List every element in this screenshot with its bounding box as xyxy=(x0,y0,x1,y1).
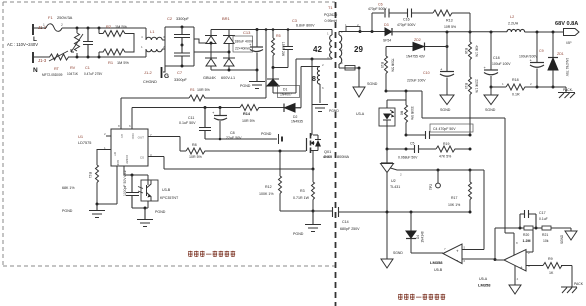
svg-text:SGND: SGND xyxy=(485,108,496,112)
transformer T1 primary winding 42T xyxy=(313,30,332,61)
svg-text:1: 1 xyxy=(43,23,45,27)
svg-text:R9: R9 xyxy=(548,257,553,261)
resistor R21 xyxy=(542,226,551,243)
wire gate line xyxy=(206,150,306,152)
resistor R14 xyxy=(240,105,260,124)
ground PGND opto xyxy=(137,208,166,227)
capacitor C8 xyxy=(212,106,242,140)
ground U5-A xyxy=(509,285,521,294)
svg-text:T1: T1 xyxy=(328,6,332,10)
resistor R19 xyxy=(436,142,472,159)
resistor R10 xyxy=(464,77,479,135)
ground SGND TL431 xyxy=(381,212,403,268)
optocoupler U3-A xyxy=(356,91,406,149)
svg-text:68K 1%: 68K 1% xyxy=(62,186,75,190)
svg-text:LM358: LM358 xyxy=(478,283,491,288)
optocoupler U3-B xyxy=(138,175,179,208)
resistor R15 xyxy=(380,47,395,92)
wire ref line extension xyxy=(462,170,484,250)
svg-text:R3: R3 xyxy=(300,189,305,193)
svg-text:42: 42 xyxy=(313,45,322,54)
svg-text:1M 5%: 1M 5% xyxy=(117,61,129,65)
resistor R13 xyxy=(433,10,470,32)
svg-text:1000pF 50V C12: 1000pF 50V C12 xyxy=(123,170,127,196)
wire output line after D3 xyxy=(392,31,507,33)
diode D1 xyxy=(267,68,300,98)
wire U1 COMP pin xyxy=(124,166,148,175)
svg-text:PGND: PGND xyxy=(240,84,251,88)
node R15 bottom xyxy=(385,90,388,93)
terminal PACK+ xyxy=(561,266,584,294)
svg-text:800MA: 800MA xyxy=(337,155,349,159)
svg-text:SGND: SGND xyxy=(367,82,378,86)
svg-text:470pF 500V: 470pF 500V xyxy=(368,7,387,11)
svg-text:R18: R18 xyxy=(512,78,519,82)
svg-text:C14: C14 xyxy=(342,220,349,224)
svg-text:R5: R5 xyxy=(276,34,281,38)
wire HV startup rail xyxy=(206,97,266,99)
resistor R3 xyxy=(293,169,315,211)
svg-text:C6: C6 xyxy=(378,3,383,7)
node L-C1 xyxy=(87,27,90,30)
wire U5-A pin3 xyxy=(526,265,543,267)
svg-text:PGND: PGND xyxy=(329,109,339,113)
wire U5-A pin4 ground xyxy=(514,266,516,286)
resistor R18 shunt xyxy=(491,78,532,97)
zener ZD2 xyxy=(386,32,449,71)
label secondary side chinese xyxy=(398,294,445,300)
transformer T1 labels xyxy=(324,6,337,23)
ferrite bead top xyxy=(339,23,362,33)
svg-text:PQ2620: PQ2620 xyxy=(324,13,337,17)
svg-text:220K 1%: 220K 1% xyxy=(475,79,479,92)
node L-R2 xyxy=(98,27,101,30)
svg-text:10R 5%: 10R 5% xyxy=(242,119,256,123)
capacitor C7 xyxy=(174,44,190,83)
svg-text:0.71R 1W: 0.71R 1W xyxy=(293,196,310,200)
connector J1-1 xyxy=(33,24,47,43)
svg-text:R15: R15 xyxy=(380,62,384,68)
svg-text:MF72-05D009: MF72-05D009 xyxy=(42,73,63,77)
svg-text:C5: C5 xyxy=(410,142,414,146)
svg-text:F1: F1 xyxy=(48,15,53,20)
svg-text:1N4755 43V: 1N4755 43V xyxy=(406,55,426,59)
svg-text:+: + xyxy=(520,265,523,270)
svg-text:U5-A: U5-A xyxy=(479,277,488,281)
thermistor RT xyxy=(42,51,70,77)
svg-text:680pF 250V: 680pF 250V xyxy=(340,227,360,231)
thick dashed isolation line xyxy=(335,2,337,306)
svg-text:R17: R17 xyxy=(451,196,457,200)
wire R1-R2 join xyxy=(127,34,134,53)
wire C12/opto return xyxy=(132,207,148,209)
svg-text:CS: CS xyxy=(140,156,144,160)
IC U1 LD7575 xyxy=(78,124,152,168)
MOSFET Q01 xyxy=(307,129,350,169)
wire U1 pin1 RT xyxy=(97,150,111,166)
svg-text:1.2M: 1.2M xyxy=(523,239,531,243)
svg-text:1N4935: 1N4935 xyxy=(291,120,303,124)
svg-text:C9: C9 xyxy=(539,49,544,53)
svg-text:0.1R: 0.1R xyxy=(512,93,520,97)
svg-text:330R 5%: 330R 5% xyxy=(410,106,414,120)
svg-text:8: 8 xyxy=(312,76,316,83)
capacitor C6 xyxy=(368,3,407,18)
svg-text:PGND: PGND xyxy=(261,132,272,136)
op-amp U5-A xyxy=(478,228,530,288)
wire U5-B plus input xyxy=(462,249,484,251)
wire U1 pin2 stub xyxy=(106,135,111,137)
svg-text:N: N xyxy=(33,67,38,74)
svg-text:C2: C2 xyxy=(167,16,173,21)
svg-text:C17: C17 xyxy=(539,211,546,215)
resistor R20 xyxy=(523,226,534,243)
ground PGND C13 xyxy=(240,70,265,89)
svg-text:U3-B: U3-B xyxy=(162,188,171,192)
capacitor C10 xyxy=(407,67,454,96)
svg-text:750R 5%: 750R 5% xyxy=(391,58,395,72)
ground PGND R11 xyxy=(62,204,105,218)
svg-text:R1: R1 xyxy=(108,60,114,65)
svg-text:CHGND: CHGND xyxy=(143,80,157,84)
wire HV to clamp return xyxy=(265,28,268,98)
svg-text:0.95mH: 0.95mH xyxy=(325,19,338,23)
svg-text:1N4148: 1N4148 xyxy=(421,231,425,242)
svg-text:R11: R11 xyxy=(88,172,92,178)
power tap PGND cell 2 xyxy=(261,132,282,144)
svg-text:RT: RT xyxy=(54,67,60,71)
diode D3 xyxy=(383,23,392,43)
svg-text:22×40mm: 22×40mm xyxy=(235,47,250,51)
resistor R2 xyxy=(99,24,127,37)
svg-text:29: 29 xyxy=(354,45,363,54)
connector J1-3 xyxy=(33,52,48,74)
svg-text:R8: R8 xyxy=(192,143,197,147)
svg-text:R12: R12 xyxy=(265,185,272,189)
op-amp U5-B xyxy=(430,244,466,272)
svg-text:43K 1%: 43K 1% xyxy=(475,45,479,57)
ground SGND C10 xyxy=(440,95,454,112)
wire shunt to PACK- xyxy=(526,87,566,92)
svg-text:TL431: TL431 xyxy=(390,185,400,189)
svg-text:KPC357NT: KPC357NT xyxy=(160,196,179,200)
resistor R4 startup xyxy=(189,88,211,101)
svg-text:OUT: OUT xyxy=(138,136,145,140)
ground SGND C18 xyxy=(484,87,498,112)
node source xyxy=(312,168,315,171)
diode D4 xyxy=(406,212,443,253)
svg-text:2: 2 xyxy=(61,23,63,27)
svg-text:C1: C1 xyxy=(85,66,90,70)
svg-text:R2: R2 xyxy=(106,24,112,29)
wire AC2 to bridge xyxy=(194,51,229,53)
node N-RV xyxy=(76,56,79,59)
capacitor C18 xyxy=(484,32,512,89)
svg-text:PGND: PGND xyxy=(62,209,73,213)
resistor R6 xyxy=(400,100,415,135)
node pin2 junction xyxy=(533,227,542,229)
ground SGND R21 xyxy=(551,228,577,244)
wire R14 to D2 xyxy=(260,107,284,109)
resistor R1 xyxy=(99,49,129,65)
ferrite bead bottom xyxy=(339,66,361,71)
capacitor C16 xyxy=(397,9,433,28)
svg-text:J1-2: J1-2 xyxy=(144,70,153,75)
svg-text:3300pF: 3300pF xyxy=(174,78,188,82)
wire bridge negative rail xyxy=(211,69,257,71)
svg-text:R6: R6 xyxy=(400,111,404,115)
node N-C1 xyxy=(87,56,90,59)
resistor R8 xyxy=(186,143,206,159)
svg-text:U5-B: U5-B xyxy=(434,268,443,272)
svg-text:U1: U1 xyxy=(78,134,84,139)
capacitor C3 xyxy=(272,19,316,69)
svg-text:68P: 68P xyxy=(566,41,572,45)
capacitor C4 xyxy=(405,124,474,139)
wire PGND line xyxy=(280,210,332,212)
svg-text:SGND: SGND xyxy=(393,251,403,255)
svg-text:0.47uF 275V: 0.47uF 275V xyxy=(84,72,103,76)
svg-text:6.8nF 800V: 6.8nF 800V xyxy=(296,24,315,28)
diode D2 xyxy=(284,104,303,124)
svg-text:C13: C13 xyxy=(243,30,251,35)
svg-text:SGND: SGND xyxy=(560,234,564,244)
svg-text:C16: C16 xyxy=(403,18,410,22)
ground PGND aux xyxy=(312,105,339,114)
svg-text:100uF/100V: 100uF/100V xyxy=(519,55,538,59)
capacitor C14 xyxy=(313,207,387,231)
svg-text:R10: R10 xyxy=(464,83,468,89)
svg-text:4N60: 4N60 xyxy=(323,155,332,159)
resistor R17 xyxy=(448,169,472,213)
svg-text:R13: R13 xyxy=(446,19,453,23)
capacitor C17 xyxy=(520,210,548,228)
wire U1 pin8 HV riser xyxy=(121,98,189,129)
svg-text:TP2: TP2 xyxy=(429,184,433,190)
svg-text:RT: RT xyxy=(113,152,117,156)
svg-text:C7: C7 xyxy=(177,70,183,75)
svg-text:BR1: BR1 xyxy=(222,16,231,21)
svg-text:PACK-: PACK- xyxy=(563,88,573,92)
svg-text:1N4761 75V: 1N4761 75V xyxy=(565,58,569,77)
svg-text:R1: R1 xyxy=(190,88,195,92)
svg-text:PGND: PGND xyxy=(155,210,166,214)
svg-text:47K 5%: 47K 5% xyxy=(439,155,451,159)
capacitor C12 xyxy=(123,170,139,208)
resistor R16 xyxy=(464,32,479,77)
svg-text:1K: 1K xyxy=(549,271,554,275)
svg-text:R20: R20 xyxy=(523,233,529,237)
wire drain xyxy=(311,59,313,129)
svg-text:R14: R14 xyxy=(243,112,251,116)
capacitor C1 xyxy=(83,28,103,76)
test point TP2 xyxy=(429,169,440,191)
capacitor C5 xyxy=(398,142,436,160)
svg-text:D3: D3 xyxy=(384,23,389,27)
svg-text:0.1uF 50V: 0.1uF 50V xyxy=(179,121,196,125)
wire SGND line xyxy=(387,211,470,213)
svg-text:ZD2: ZD2 xyxy=(414,38,421,42)
svg-text:68V 0.8A: 68V 0.8A xyxy=(555,21,578,27)
svg-text:AC : 110V~240V: AC : 110V~240V xyxy=(7,42,38,47)
svg-text:D1: D1 xyxy=(283,88,287,92)
wire U1 pin6 VCC riser xyxy=(132,108,240,130)
svg-text:D4: D4 xyxy=(416,235,420,239)
svg-text:10K 1%: 10K 1% xyxy=(448,203,460,207)
svg-text:RV: RV xyxy=(70,66,76,70)
svg-text:ZD1: ZD1 xyxy=(557,52,564,56)
svg-text:C18: C18 xyxy=(493,56,500,60)
svg-text:LD7575: LD7575 xyxy=(78,141,91,145)
svg-text:PGND: PGND xyxy=(293,232,304,236)
svg-text:R16: R16 xyxy=(464,48,468,54)
svg-text:C8: C8 xyxy=(230,131,235,135)
wire VCC decoupling return xyxy=(205,138,277,140)
wire U5-B minus input xyxy=(462,258,495,260)
node L-RV xyxy=(76,27,79,30)
transformer T1 secondary winding 29T xyxy=(339,30,363,68)
svg-text:LM358: LM358 xyxy=(430,260,443,265)
svg-text:SGND: SGND xyxy=(440,108,451,112)
svg-text:J1-3: J1-3 xyxy=(38,58,47,63)
ground PGND R3 xyxy=(293,211,321,236)
wire U5-A pin2 feedback xyxy=(526,228,533,252)
resistor R5 xyxy=(272,28,286,67)
connector J1-2 G xyxy=(143,66,169,84)
svg-text:220uF 100V: 220uF 100V xyxy=(407,79,426,83)
resistor R11 xyxy=(62,165,99,204)
svg-text:0.068uF 50V: 0.068uF 50V xyxy=(398,156,418,160)
svg-text:+: + xyxy=(456,249,459,254)
choke L1 xyxy=(141,28,165,57)
svg-text:100K 1%: 100K 1% xyxy=(259,192,274,196)
svg-text:0.1uF: 0.1uF xyxy=(539,217,548,221)
zener ZD1 xyxy=(548,31,569,89)
svg-text:C11: C11 xyxy=(188,116,194,120)
svg-text:C10: C10 xyxy=(423,71,430,75)
capacitor C11 xyxy=(179,106,211,139)
transformer T1 aux winding 8T xyxy=(295,63,324,108)
svg-text:R21: R21 xyxy=(542,233,548,237)
svg-text:C4 470pF 50V: C4 470pF 50V xyxy=(433,127,456,131)
ground SGND secondary xyxy=(353,68,378,97)
svg-text:L2: L2 xyxy=(510,15,514,19)
svg-text:PACK: PACK xyxy=(574,282,584,286)
wire TL431 cathode line xyxy=(387,148,414,150)
svg-text:Q01: Q01 xyxy=(324,150,331,154)
capacitor C9 xyxy=(519,31,544,89)
wire feedback top line xyxy=(495,227,524,229)
fuse F1 xyxy=(40,15,73,31)
svg-text:600V-L1: 600V-L1 xyxy=(221,76,235,80)
svg-text:HV: HV xyxy=(120,134,124,138)
wire U1 GND pin xyxy=(97,166,117,204)
node N-R1 xyxy=(98,56,101,59)
wire AC1 to bridge xyxy=(194,39,211,43)
svg-text:COMP: COMP xyxy=(125,155,129,164)
output connector 68P xyxy=(555,21,579,45)
svg-text:VCC: VCC xyxy=(131,133,135,140)
svg-text:180uF 400V: 180uF 400V xyxy=(235,40,254,44)
svg-text:C3: C3 xyxy=(292,19,297,23)
bridge rectifier BR1 xyxy=(203,16,235,80)
dashed primary-side boundary box xyxy=(3,2,335,266)
wire C2/C7 frame xyxy=(165,27,194,66)
capacitor C2 xyxy=(167,16,190,45)
svg-text:3300pF: 3300pF xyxy=(176,17,190,21)
svg-text:D2: D2 xyxy=(293,115,297,119)
wire N line xyxy=(68,56,146,58)
shunt regulator U2 TL431 xyxy=(381,149,471,212)
svg-text:2.2UH: 2.2UH xyxy=(508,22,519,26)
svg-text:10R 5%: 10R 5% xyxy=(197,88,211,92)
svg-text:GBU4K: GBU4K xyxy=(203,76,216,80)
svg-text:470pF 500V: 470pF 500V xyxy=(397,23,416,27)
wire secondary top line xyxy=(360,31,385,33)
svg-text:10471K: 10471K xyxy=(67,72,79,76)
snubber riser xyxy=(372,13,384,32)
wire switch node xyxy=(273,59,332,93)
svg-text:G: G xyxy=(164,73,169,80)
wire L line xyxy=(62,27,146,29)
capacitor C13 xyxy=(233,28,263,72)
terminal PACK- xyxy=(558,88,575,98)
varistor RV xyxy=(67,28,83,76)
svg-text:L1: L1 xyxy=(150,29,155,34)
resistor R9 xyxy=(543,257,563,275)
svg-text:250V/3A: 250V/3A xyxy=(57,15,73,20)
svg-text:1M 5%: 1M 5% xyxy=(115,25,127,29)
resistor R12 xyxy=(259,151,282,211)
svg-text:U2: U2 xyxy=(391,179,396,183)
label primary side chinese xyxy=(188,251,235,257)
svg-text:100uF 100V: 100uF 100V xyxy=(492,62,511,66)
wire U1 OUT to gate xyxy=(148,137,186,152)
svg-text:R19: R19 xyxy=(443,142,449,146)
svg-text:U3-A: U3-A xyxy=(356,112,365,116)
svg-text:10R 5%: 10R 5% xyxy=(189,155,203,159)
svg-text:10k: 10k xyxy=(543,239,549,243)
inductor L2 xyxy=(507,15,563,32)
wire bias node xyxy=(386,91,514,255)
svg-text:10R 5%: 10R 5% xyxy=(444,25,456,29)
wire HV+ rail xyxy=(211,29,332,31)
wire U1 CS line xyxy=(148,157,313,170)
svg-text:SF54: SF54 xyxy=(383,39,391,43)
